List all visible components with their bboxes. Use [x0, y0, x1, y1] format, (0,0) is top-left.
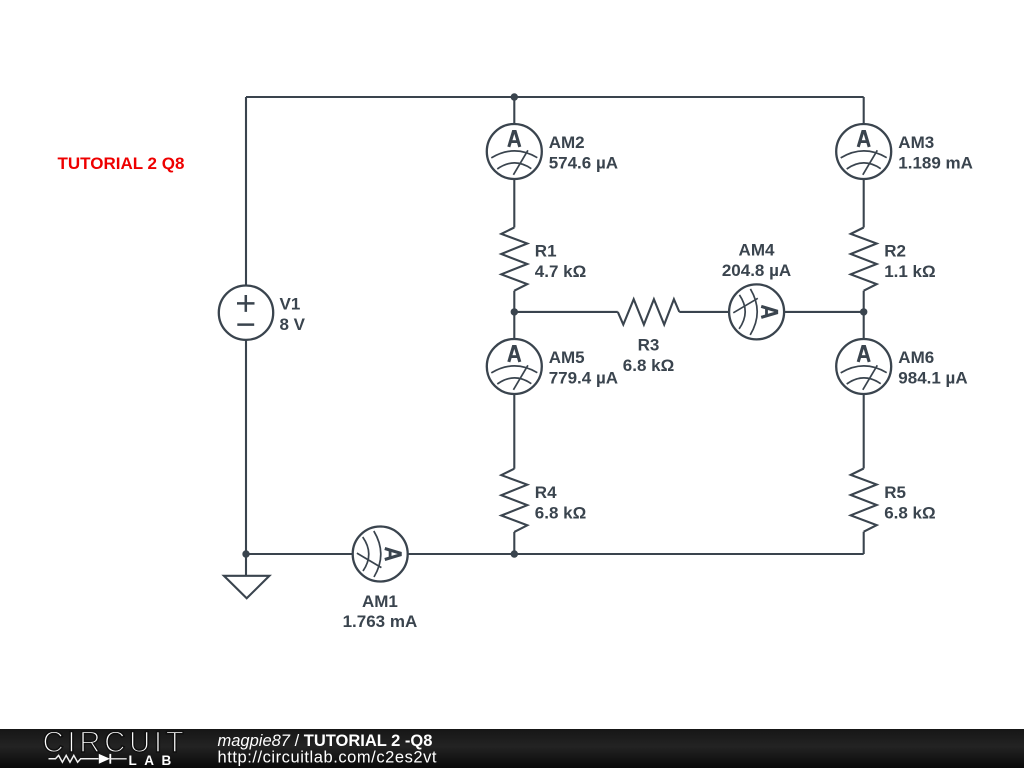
resistor R2 — [851, 228, 877, 291]
wire right rail d — [863, 394, 865, 469]
resistor R5 — [851, 469, 877, 532]
svg-text:V1: V1 — [280, 294, 301, 313]
svg-text:R3: R3 — [638, 336, 660, 355]
svg-text:8 V: 8 V — [280, 315, 306, 334]
svg-text:6.8 kΩ: 6.8 kΩ — [535, 504, 586, 523]
node bottom left — [242, 550, 249, 557]
wire middle rail c — [513, 291, 515, 339]
ammeter AM4 — [729, 284, 784, 339]
wire middle rail b — [513, 179, 515, 228]
ammeter AM3 — [836, 124, 891, 179]
ammeter AM6 — [836, 339, 891, 394]
ammeter AM2 — [487, 124, 542, 179]
svg-text:AM1: AM1 — [362, 592, 398, 611]
svg-text:1.189 mA: 1.189 mA — [898, 154, 973, 173]
svg-text:AM3: AM3 — [898, 133, 934, 152]
svg-text:AM4: AM4 — [739, 241, 775, 260]
svg-text:LAB: LAB — [129, 753, 179, 768]
wire right rail a — [863, 97, 865, 124]
node bottom middle — [511, 550, 518, 557]
svg-text:204.8 µA: 204.8 µA — [722, 261, 791, 280]
wire right rail b — [863, 179, 865, 228]
svg-text:779.4 µA: 779.4 µA — [549, 369, 618, 388]
svg-text:R1: R1 — [535, 242, 557, 261]
wire right rail c — [863, 291, 865, 339]
logo squiggle resistor diode — [49, 754, 127, 764]
svg-text:AM2: AM2 — [549, 133, 585, 152]
svg-text:R4: R4 — [535, 483, 557, 502]
wire middle horizontal b — [679, 311, 729, 313]
voltage source V1 — [219, 286, 273, 340]
resistor R4 — [501, 469, 527, 532]
wire bottom rail b — [408, 553, 864, 555]
wire middle rail a — [513, 97, 515, 124]
svg-text:4.7 kΩ: 4.7 kΩ — [535, 262, 586, 281]
node top middle — [511, 93, 518, 100]
svg-text:6.8 kΩ: 6.8 kΩ — [623, 356, 674, 375]
ammeter AM5 — [487, 339, 542, 394]
svg-text:magpie87 / TUTORIAL 2 -Q8: magpie87 / TUTORIAL 2 -Q8 — [218, 732, 433, 750]
svg-text:6.8 kΩ: 6.8 kΩ — [884, 504, 935, 523]
svg-text:R5: R5 — [884, 483, 906, 502]
wire top rail — [246, 96, 864, 98]
wire ground stub — [245, 554, 247, 576]
node mid right — [860, 308, 867, 315]
svg-text:574.6 µA: 574.6 µA — [549, 154, 618, 173]
footer bar — [0, 729, 1024, 768]
wire middle rail d — [513, 394, 515, 469]
ammeter AM1 — [353, 527, 408, 582]
svg-text:R2: R2 — [884, 242, 906, 261]
wire left rail lower — [245, 340, 247, 554]
wire right rail e — [863, 532, 865, 554]
wire middle horizontal c — [784, 311, 864, 313]
wire bottom rail a — [246, 553, 353, 555]
ground — [224, 576, 270, 599]
svg-text:984.1 µA: 984.1 µA — [898, 369, 967, 388]
svg-text:1.763 mA: 1.763 mA — [343, 612, 418, 631]
wire left rail upper — [245, 97, 247, 286]
node mid left — [511, 308, 518, 315]
wire middle rail e — [513, 532, 515, 554]
svg-text:AM6: AM6 — [898, 348, 934, 367]
svg-text:TUTORIAL 2 Q8: TUTORIAL 2 Q8 — [58, 154, 185, 173]
svg-text:http://circuitlab.com/c2es2vt: http://circuitlab.com/c2es2vt — [218, 749, 438, 767]
resistor R1 — [501, 228, 527, 291]
svg-text:AM5: AM5 — [549, 348, 585, 367]
resistor R3 — [618, 299, 680, 324]
wire middle horizontal a — [514, 311, 618, 313]
svg-text:1.1 kΩ: 1.1 kΩ — [884, 262, 935, 281]
